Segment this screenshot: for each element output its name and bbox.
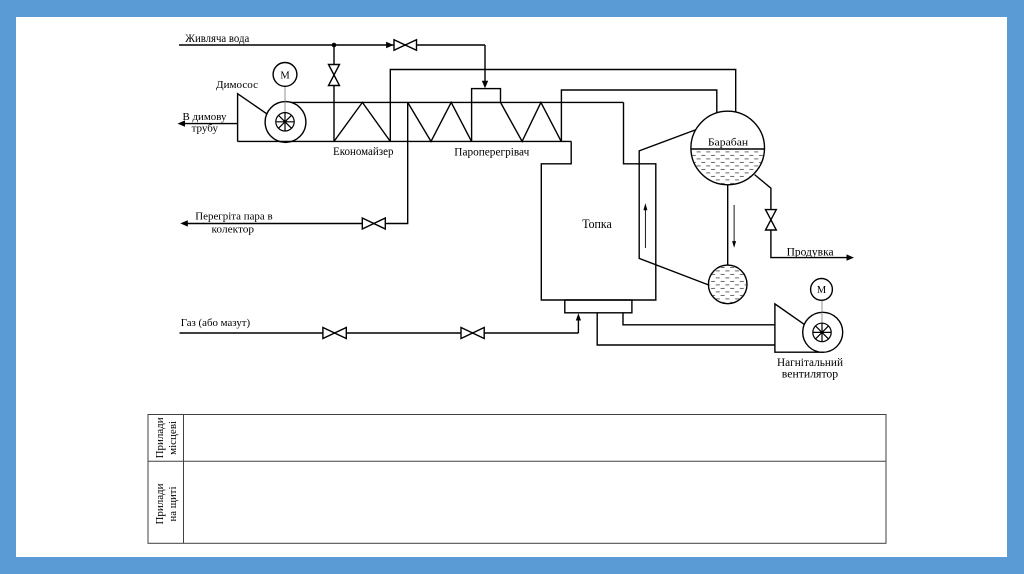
- lower drum: [708, 265, 747, 304]
- wire: feed branch down to economizer: [333, 45, 335, 141]
- wire: feed water main line: [179, 44, 485, 46]
- boiler bank riser channel with diagonals to drums: [639, 130, 709, 285]
- svg-text:Пароперегрівач: Пароперегрівач: [454, 147, 529, 159]
- motor M1 of smoke exhauster: [273, 63, 297, 87]
- svg-text:трубу: трубу: [192, 122, 219, 134]
- wire: superheated steam outlet down: [186, 102, 408, 223]
- smoke exhauster casing: [238, 94, 268, 142]
- wire: saturated steam from drum to superheater: [561, 90, 716, 141]
- wire: motor shaft of forced draft fan: [821, 300, 823, 332]
- superheater coil stage 1: [408, 102, 472, 141]
- svg-text:Прилади: Прилади: [155, 417, 166, 459]
- svg-text:Газ (або мазут): Газ (або мазут): [181, 317, 251, 329]
- svg-text:Топка: Топка: [582, 216, 612, 231]
- arrow: gas up into burner: [576, 313, 581, 320]
- table row headers (rotated): [155, 417, 179, 525]
- arrow: to chimney (left): [178, 120, 186, 126]
- valve V6 gas line (horizontal gate): [461, 328, 484, 339]
- burner box under furnace: [565, 300, 632, 313]
- drum (Барабан): [691, 111, 765, 185]
- wire: feed water drop to attemperator: [484, 45, 486, 83]
- smoke exhauster impeller hub: [276, 113, 294, 131]
- wire: gas riser to burner: [577, 320, 579, 334]
- wire: downcomer drum to lower drum: [727, 185, 729, 266]
- wire: gas (fuel) line: [180, 332, 579, 334]
- valve V5 gas line (horizontal gate): [323, 328, 346, 339]
- lower drum water dashes: [708, 266, 748, 304]
- svg-text:на щиті: на щиті: [168, 486, 179, 521]
- svg-text:Перегріта пара в: Перегріта пара в: [195, 210, 272, 222]
- attemperator box on superheater: [472, 89, 501, 103]
- wire: air duct from fan to burner (lower): [597, 313, 775, 345]
- wire: air duct from fan to burner (upper): [623, 313, 775, 325]
- forced draft fan impeller hub: [813, 323, 831, 341]
- valve V2 economizer feed (vertical gate): [329, 65, 340, 86]
- svg-text:В димову: В димову: [183, 111, 227, 123]
- arrow: gas flow up in riser channel: [643, 203, 647, 248]
- svg-text:Економайзер: Економайзер: [333, 146, 394, 158]
- svg-text:вентилятор: вентилятор: [782, 368, 839, 380]
- wire: smoke outlet to chimney: [184, 123, 238, 125]
- arrow: blowdown out (right): [847, 254, 855, 260]
- instrument table: [148, 415, 886, 544]
- wire: flue duct top line: [291, 101, 624, 103]
- economizer coil: [334, 102, 390, 141]
- wire: motor shaft of smoke exhauster: [284, 85, 286, 122]
- arrow: feed water flow right: [386, 42, 394, 48]
- wire: blowdown from drum: [755, 175, 850, 258]
- svg-text:місцеві: місцеві: [168, 421, 179, 455]
- node: feed water branch junction: [332, 43, 337, 48]
- drum water dashes: [690, 151, 766, 186]
- furnace outline (Topka): [541, 102, 656, 300]
- smoke exhauster fan circle: [265, 102, 306, 143]
- valve V3 superheated steam (horizontal gate): [362, 218, 385, 229]
- superheater coil stage 2: [501, 102, 562, 141]
- arrow: superheated steam to collector (left): [180, 220, 188, 226]
- svg-text:Продувка: Продувка: [787, 246, 834, 258]
- wire: economizer outlet up and over to drum: [390, 70, 735, 142]
- valve V4 blowdown (vertical gate): [766, 210, 777, 230]
- svg-text:Прилади: Прилади: [155, 483, 166, 525]
- wire: attemperator divider in duct: [471, 102, 473, 141]
- valve V1 feed water (horizontal gate): [394, 40, 417, 51]
- arrow: down into attemperator: [482, 81, 488, 89]
- svg-text:Барабан: Барабан: [708, 137, 749, 148]
- drum water level line: [691, 148, 765, 150]
- wire: flue duct bottom line: [238, 140, 572, 142]
- forced draft fan casing: [775, 304, 824, 352]
- svg-text:Живляча вода: Живляча вода: [185, 33, 249, 45]
- svg-text:Нагнітальний: Нагнітальний: [777, 357, 843, 369]
- arrow: downward flow in downcomer: [732, 205, 736, 248]
- motor M2 of forced draft fan: [811, 279, 833, 301]
- svg-text:М: М: [280, 70, 290, 81]
- svg-text:колектор: колектор: [212, 224, 255, 236]
- svg-text:Димосос: Димосос: [216, 79, 258, 91]
- forced draft fan circle: [803, 312, 843, 352]
- svg-text:М: М: [817, 285, 827, 296]
